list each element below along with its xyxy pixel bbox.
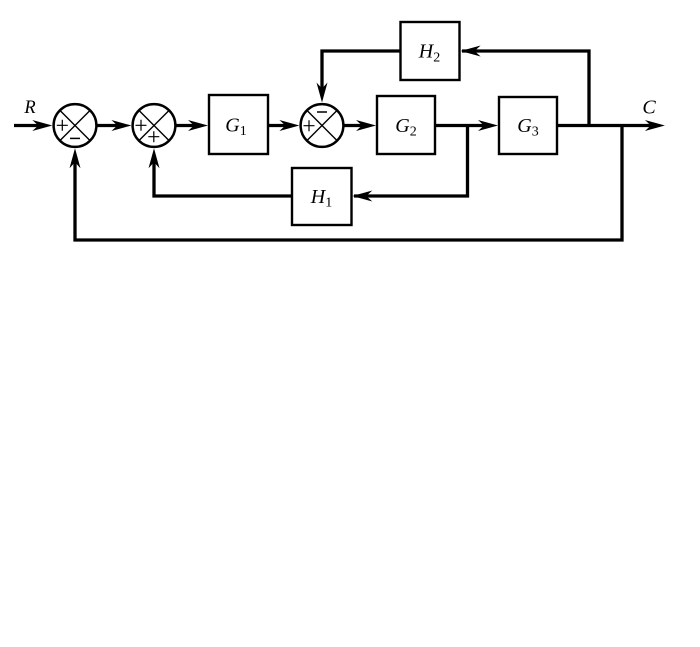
wire S3 to G2 xyxy=(345,124,367,127)
wire outer feedback loop xyxy=(75,124,622,240)
wire H1 to S2 xyxy=(154,158,292,196)
wire S2 to G1 xyxy=(177,124,199,127)
arrowhead into S3 top xyxy=(317,83,328,103)
wire H2 to S3 xyxy=(322,51,401,93)
wire R input xyxy=(14,124,42,127)
arrowhead into block H1 xyxy=(352,191,372,202)
block H2 xyxy=(401,22,460,80)
svg-text:C: C xyxy=(642,96,656,118)
arrowhead into block H2 xyxy=(461,46,481,57)
arrowhead into block G1 xyxy=(188,120,208,131)
wire G3 to output C xyxy=(557,124,653,127)
arrowhead R into summing junction S1 xyxy=(32,120,52,131)
wire takeoff up to H2 feedback xyxy=(462,51,589,127)
wire G2 to G3 xyxy=(435,124,488,127)
arrowhead into S2 bottom xyxy=(149,148,160,168)
block G3 xyxy=(499,97,557,154)
S1 plus sign xyxy=(57,120,68,131)
arrowhead output C xyxy=(645,120,665,131)
block G2 xyxy=(377,96,435,154)
S2 plus sign left xyxy=(136,120,147,131)
arrowhead into block G3 xyxy=(478,120,498,131)
arrowhead into summing junction S3 xyxy=(279,120,299,131)
S3 minus sign top xyxy=(317,111,327,113)
summing junction S3 xyxy=(301,104,344,147)
summing junction S1 xyxy=(54,104,97,147)
wire takeoff down to H1 feedback xyxy=(354,124,468,196)
block H1 xyxy=(292,168,352,225)
S2 plus sign bottom xyxy=(148,131,159,142)
S1 minus sign xyxy=(70,137,80,139)
svg-text:R: R xyxy=(23,98,35,118)
wire G1 to S3 xyxy=(268,124,290,127)
wire S1 to S2 xyxy=(98,124,122,127)
summing junction S2 xyxy=(133,104,176,147)
block G1 xyxy=(209,95,268,154)
S3 plus sign left xyxy=(304,120,315,131)
arrowhead into summing junction S2 xyxy=(111,120,131,131)
arrowhead into S1 bottom xyxy=(70,148,81,168)
arrowhead into block G2 xyxy=(356,120,376,131)
